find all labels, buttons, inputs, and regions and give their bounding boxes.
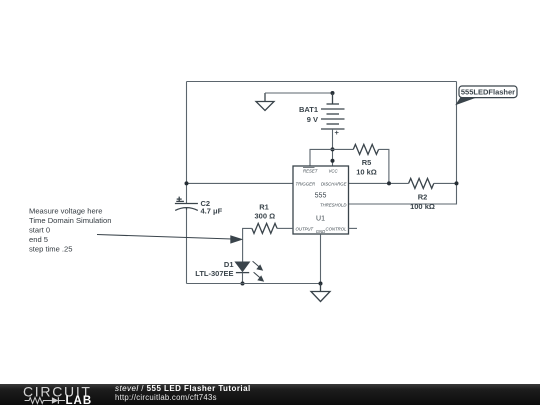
svg-text:555: 555: [315, 193, 327, 200]
node R2 right junction: [455, 181, 459, 185]
node VCC pin dot: [331, 159, 335, 163]
svg-text:stevel / 555 LED Flasher Tutor: stevel / 555 LED Flasher Tutorial: [115, 384, 251, 393]
wire DISCHARGE to R2: [349, 182, 409, 184]
svg-text:DISCHARGE: DISCHARGE: [321, 182, 347, 187]
footer title text: [115, 384, 251, 402]
svg-text:end 5: end 5: [29, 235, 48, 244]
svg-text:R1: R1: [259, 202, 269, 211]
wire RESET branch: [310, 149, 333, 166]
footer bar: [0, 384, 540, 405]
wire top edge of loop: [187, 81, 457, 83]
node battery top junction: [331, 91, 335, 95]
annotation arrow: [97, 235, 243, 244]
op-amp/IC U1 555 timer box: [293, 166, 349, 234]
svg-text:LTL-307EE: LTL-307EE: [195, 269, 233, 278]
wire TRIGGER: [187, 182, 294, 184]
svg-text:http://circuitlab.com/cft743s: http://circuitlab.com/cft743s: [115, 393, 217, 402]
node D1 bottom junction: [241, 282, 245, 286]
node trigger/C2 junction: [185, 181, 189, 185]
wire left edge lower (C2 to bottom wire): [186, 209, 188, 284]
resistor R1 300 ohm: [243, 202, 293, 262]
diode D1 LED LTL-307EE: [195, 260, 263, 284]
svg-text:THRESHOLD: THRESHOLD: [320, 202, 347, 207]
svg-text:Time Domain Simulation: Time Domain Simulation: [29, 216, 111, 225]
wire threshold to right edge: [349, 183, 457, 204]
svg-text:GND: GND: [316, 229, 326, 234]
wire left edge upper (top corner down to C2): [186, 82, 188, 204]
svg-text:+: +: [335, 128, 340, 137]
ground (top, battery negative): [256, 93, 274, 111]
svg-text:Measure voltage here: Measure voltage here: [29, 207, 102, 216]
svg-text:LAB: LAB: [66, 395, 93, 405]
battery BAT1 9V: [299, 93, 345, 137]
capacitor C2 4.7uF: [175, 197, 223, 216]
svg-text:OUTPUT: OUTPUT: [296, 227, 314, 232]
svg-text:TRIGGER: TRIGGER: [296, 182, 316, 187]
pin CONTROL stub: [349, 227, 358, 229]
wire battery to VCC pin: [332, 129, 334, 166]
svg-text:10 kΩ: 10 kΩ: [356, 168, 377, 177]
wire ground to battery top: [265, 92, 333, 94]
svg-text:4.7 μF: 4.7 μF: [201, 207, 223, 216]
svg-text:R5: R5: [362, 158, 372, 167]
resistor R2 100k: [409, 178, 457, 211]
wire right edge (top corner down to R2 junction): [456, 82, 458, 184]
svg-text:BAT1: BAT1: [299, 105, 318, 114]
node label callout 555LEDFlasher: [455, 86, 517, 105]
wire bottom rail: [187, 283, 321, 285]
svg-text:555LEDFlasher: 555LEDFlasher: [461, 88, 515, 97]
ground (bottom): [311, 284, 330, 302]
wire GND pin down: [320, 234, 322, 284]
resistor R5 10k: [333, 144, 389, 183]
annotation text block: [29, 207, 111, 254]
svg-text:CONTROL: CONTROL: [325, 227, 347, 232]
svg-text:9 V: 9 V: [307, 115, 318, 124]
node ground junction: [319, 282, 323, 286]
logo CircuitLab: [23, 384, 92, 405]
svg-text:RESET: RESET: [303, 169, 318, 174]
svg-text:D1: D1: [224, 260, 234, 269]
svg-text:U1: U1: [316, 216, 325, 223]
svg-text:R2: R2: [418, 193, 428, 202]
node R5/discharge junction: [387, 181, 391, 185]
svg-text:step time .25: step time .25: [29, 245, 72, 254]
node VCC/R5 junction: [331, 147, 335, 151]
svg-text:VCC: VCC: [329, 169, 339, 174]
svg-text:300 Ω: 300 Ω: [254, 212, 275, 221]
svg-text:start 0: start 0: [29, 226, 50, 235]
svg-text:100 kΩ: 100 kΩ: [410, 202, 435, 211]
